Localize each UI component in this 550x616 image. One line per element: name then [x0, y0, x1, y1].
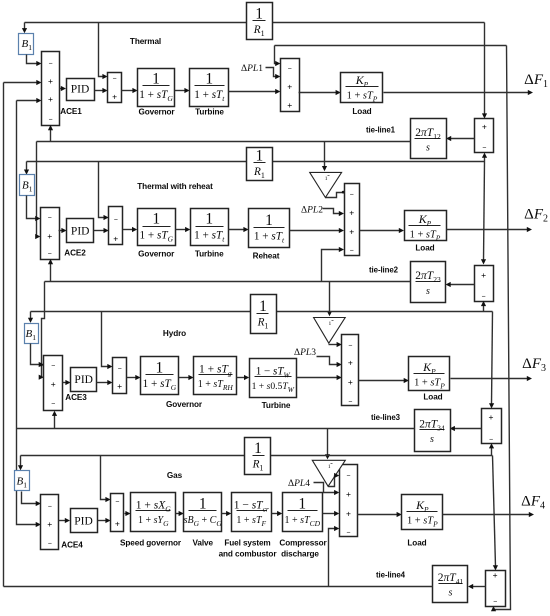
wire B1-2 output to ACE2: [27, 196, 37, 219]
block 1/R1 area-4: [245, 438, 271, 475]
svg-text:tie-line3: tie-line3: [371, 413, 401, 422]
node area-2 frequency feedback wire (y=161): [27, 161, 247, 163]
svg-text:+: +: [48, 76, 53, 86]
svg-text:s: s: [430, 434, 434, 445]
svg-text:Turbine: Turbine: [195, 250, 224, 259]
node area-4 frequency feedback wire (y=456): [21, 455, 245, 457]
wire dF4 chain down to tie-line4 summer: [493, 456, 496, 567]
svg-text:tie-line4: tie-line4: [376, 571, 406, 580]
block Valve 1/(sBG+CG): [184, 493, 223, 532]
svg-text:1 + sTt: 1 + sTt: [254, 230, 285, 244]
summer tie-line2 (dF2 - dF3): [475, 266, 494, 302]
wire droop 1/R1 feedback stub area-2: [99, 162, 106, 218]
svg-text:Reheat: Reheat: [253, 251, 280, 260]
svg-text:Governor: Governor: [166, 400, 203, 409]
block tie-line1 2piT12/s: [411, 119, 447, 159]
block transient droop (1+sTg)/(1+sTRH): [194, 357, 237, 395]
svg-text:Load: Load: [407, 539, 426, 548]
node area-3 frequency feedback wire (y=312): [31, 311, 251, 313]
svg-text:−: −: [346, 473, 350, 480]
summer tie-line3 (dF3 - dF4): [482, 409, 502, 444]
wire tie2 summer to tie2 block: [449, 284, 475, 286]
wire tie-line3 output bus: [17, 428, 415, 430]
wire dF1 long feedback down right side to tie-line4: [494, 46, 511, 610]
svg-text:1: 1: [152, 211, 160, 228]
wire tie-line4 output bus: [4, 586, 329, 588]
svg-text:1: 1: [205, 70, 213, 87]
svg-text:Turbine: Turbine: [262, 401, 291, 410]
svg-text:1 + sTt: 1 + sTt: [194, 229, 225, 243]
wire summer to governor-2: [123, 229, 134, 231]
wire PID2 to summer: [94, 230, 106, 232]
wire dPL1 hook into summer: [266, 68, 277, 77]
summer generation area-4 (dPL4): [340, 465, 358, 537]
svg-text:1: 1: [325, 176, 328, 182]
wire summer to load-2: [360, 230, 401, 232]
summer ACE4: [41, 495, 59, 550]
wire dF2 chain down to tie-line2 summer: [484, 162, 485, 262]
svg-text:−: −: [48, 215, 52, 222]
svg-text:and combustor: and combustor: [219, 550, 278, 559]
wire tie4 output stub up into generation summer 4 row4: [329, 529, 336, 587]
svg-text:PID: PID: [71, 226, 90, 238]
summer pre-governor area-2: [109, 207, 123, 245]
svg-text:1: 1: [255, 6, 263, 23]
gain inverter triangle area-2: [310, 172, 342, 197]
wire PID3 to summer: [97, 382, 109, 384]
wire to fuel system: [222, 513, 228, 515]
svg-text:discharge: discharge: [281, 550, 319, 559]
block Governor area-2 1/(1+sTG): [138, 209, 176, 246]
wire ACE2 to PID: [59, 230, 64, 232]
wire PID4 to summer: [98, 520, 108, 522]
svg-text:Valve: Valve: [192, 539, 213, 548]
svg-text:−: −: [48, 504, 52, 511]
wire tie-line2 output bus: [45, 281, 411, 283]
svg-text:+: +: [482, 121, 487, 131]
block Speed governor (1+sXG)/(1+sYG): [131, 493, 176, 532]
wire triangle-4 output into generation summer 4: [329, 476, 335, 487]
svg-text:ACE4: ACE4: [61, 541, 83, 550]
node area-1 frequency feedback wire (y=22): [25, 22, 247, 24]
svg-text:Compressor: Compressor: [279, 539, 327, 548]
svg-text:1: 1: [259, 298, 267, 315]
svg-text:+: +: [112, 92, 117, 102]
svg-text:PID: PID: [74, 374, 93, 386]
svg-text:−: −: [115, 499, 119, 506]
svg-text:−: −: [489, 437, 493, 444]
wire summer to load-1: [299, 92, 338, 94]
wire B1-3 output to ACE3: [31, 344, 41, 365]
wire dF1 tap down to tie-line1 summer: [484, 23, 486, 116]
controller PID area-2: [67, 219, 94, 243]
svg-text:Speed governor: Speed governor: [120, 539, 182, 548]
block Governor area-1 1/(1+sTG): [138, 69, 175, 107]
wire tie1 junction down to inverter triangle area-2: [324, 142, 326, 168]
svg-text:+: +: [346, 489, 351, 499]
svg-text:+: +: [47, 231, 52, 241]
svg-text:+: +: [348, 377, 353, 387]
svg-text:Thermal with reheat: Thermal with reheat: [137, 182, 213, 191]
wire tie1 output down to area-2 ACE2: [36, 142, 38, 237]
wire dPL4 hook into summer: [314, 483, 336, 493]
svg-text:Thermal: Thermal: [130, 37, 161, 46]
wire tie-line4 output into generation summer 1 (top elbow): [275, 45, 507, 47]
controller PID area-4: [71, 509, 98, 533]
summer generation area-3 (dPL3): [342, 335, 359, 407]
wire dF3 feedback up into tie2 summer (minus): [483, 305, 485, 312]
svg-text:1: 1: [256, 148, 264, 165]
block Turbine area-1 1/(1+sTt): [190, 69, 229, 107]
svg-text:s: s: [426, 286, 430, 297]
svg-text:−: −: [482, 145, 486, 152]
svg-text:ΔPL3: ΔPL3: [294, 348, 316, 358]
summer pre-governor area-1: [108, 73, 122, 103]
block Fuel system (1-sTcr)/(1+sTF): [232, 493, 272, 532]
wire tie2 output up into ACE2 bottom: [50, 263, 52, 282]
svg-text:1: 1: [298, 495, 306, 512]
svg-text:−: −: [51, 363, 55, 370]
svg-text:−: −: [113, 76, 117, 83]
wire tie3 output up into ACE3 bottom: [54, 415, 56, 429]
wire tie3 output down then into ACE4 row2: [17, 429, 38, 525]
wire output dF2: [447, 229, 529, 231]
wire tie2 junction down to inverter triangle area-3: [329, 282, 331, 313]
svg-text:ACE3: ACE3: [65, 393, 87, 402]
summer generation area-1 (dPL1): [281, 59, 300, 112]
block B1 area-4: [15, 471, 30, 491]
svg-text:1: 1: [199, 495, 207, 512]
controller PID area-3: [71, 368, 97, 392]
summer generation area-2 (dPL2): [345, 184, 360, 256]
block B1 area-2: [20, 175, 35, 196]
svg-text:PID: PID: [74, 515, 93, 527]
svg-text:ΔPL4: ΔPL4: [288, 479, 310, 489]
wire droop 1/R1 feedback stub area-3: [102, 312, 109, 367]
wire output dF1: [384, 92, 530, 94]
svg-text:−: −: [114, 217, 118, 224]
svg-text:tie-line2: tie-line2: [369, 266, 399, 275]
wire tie-line4 feedback into ACE1 (+) row2: [4, 82, 39, 84]
svg-text:+: +: [48, 94, 53, 104]
block B1 area-1: [19, 34, 34, 55]
block 1/R1 area-1: [247, 3, 273, 40]
block tie-line2 2piT23/s: [411, 262, 446, 303]
wire governor-2 to turbine-2: [176, 229, 187, 231]
svg-text:1: 1: [328, 464, 331, 470]
svg-text:+: +: [115, 518, 120, 528]
wire to hydro turbine block: [237, 377, 246, 379]
wire output dF3: [451, 378, 529, 380]
wire PID1 to summer: [95, 90, 105, 92]
svg-text:tie-line1: tie-line1: [366, 126, 396, 135]
svg-text:−: −: [348, 399, 352, 406]
wire tie2 output stub up into generation summer 2 row4: [322, 250, 341, 282]
wire turbine-2 to reheat: [229, 229, 246, 231]
block hydro governor 1/(1+sTG): [141, 357, 179, 395]
controller PID area-1: [67, 79, 95, 101]
wire summer to governor-1: [122, 90, 135, 92]
svg-text:+: +: [493, 570, 498, 580]
wire turbine-3 to generation summer 3: [297, 377, 339, 379]
wire tie2 output down to ACE3: [42, 282, 45, 378]
svg-text:Turbine: Turbine: [195, 107, 224, 116]
block Load area-4: [402, 495, 443, 530]
svg-text:PID: PID: [71, 84, 90, 96]
svg-text:+: +: [51, 379, 56, 389]
svg-text:−: −: [348, 343, 352, 350]
block Turbine area-2 1/(1+sTt): [191, 209, 229, 246]
wire to valve: [176, 513, 181, 515]
wire droop 1/R1 feedback stub area-1: [99, 23, 105, 77]
svg-text:1: 1: [156, 359, 164, 376]
block tie-line3 2piT34/s: [415, 410, 451, 452]
wire B1-1 feed elbow: [24, 23, 26, 30]
svg-text:+: +: [346, 509, 351, 519]
wire ACE4 to PID: [59, 520, 67, 522]
svg-text:ACE2: ACE2: [64, 249, 86, 258]
wire droop 1/R1 feedback stub area-4: [101, 456, 108, 500]
wire B1-4 output to ACE4: [22, 492, 38, 504]
block 1/R1 area-2: [247, 148, 273, 181]
gain inverter triangle area-4: [312, 460, 345, 486]
wire dF4 feedback up into tie3 summer (minus): [491, 447, 493, 456]
svg-text:Load: Load: [352, 107, 371, 116]
wire summer to governor-3: [127, 377, 137, 379]
wire tie3 long feedback up-left to ACE1 row3: [16, 101, 18, 429]
svg-text:1: 1: [265, 212, 273, 229]
block hydro Turbine (1-sTW)/(1+s0.5TW): [250, 359, 297, 398]
wire summer to load-4: [358, 514, 399, 516]
wire tie4 long feedback up-left to ACE1 row2: [3, 83, 5, 587]
wire B1-4 feed elbow: [20, 456, 22, 467]
svg-text:ACE1: ACE1: [60, 107, 82, 116]
svg-text:Hydro: Hydro: [163, 329, 186, 338]
wire dF3 chain down to tie-line3 summer: [492, 312, 493, 405]
svg-text:Governor: Governor: [138, 107, 175, 116]
block Load area-1 KP/(1+sTP): [341, 73, 383, 104]
wire tie1 output up into ACE1 bottom: [50, 129, 52, 142]
wire governor-1 to turbine-1: [175, 90, 187, 92]
svg-text:−: −: [48, 251, 52, 258]
svg-text:−: −: [51, 401, 55, 408]
wire tie1 summer to tie1 block: [450, 138, 475, 140]
svg-text:−: −: [346, 530, 350, 537]
svg-text:s: s: [449, 588, 453, 599]
wire ACE1 to PID: [60, 88, 63, 90]
svg-text:Governor: Governor: [138, 250, 175, 259]
wire B1-1 output to ACE1: [27, 55, 39, 64]
summer tie-line4 (dF4 - dF1): [486, 570, 506, 606]
svg-text:−: −: [482, 294, 486, 301]
block Load area-3: [409, 357, 450, 391]
wire compressor to generation summer 4: [323, 513, 336, 515]
svg-text:+: +: [287, 100, 292, 110]
svg-text:+: +: [47, 519, 52, 529]
svg-text:−: −: [350, 248, 354, 255]
svg-text:+: +: [349, 226, 354, 236]
wire B1-3 feed elbow: [30, 312, 32, 320]
svg-text:−: −: [118, 366, 122, 373]
svg-text:+: +: [287, 82, 292, 92]
wire tie3 summer to tie3 block: [454, 428, 482, 430]
svg-text:−: −: [48, 116, 52, 123]
wire to compressor discharge: [272, 513, 279, 515]
svg-text:1: 1: [205, 211, 213, 228]
svg-text:+: +: [481, 270, 486, 280]
svg-text:1: 1: [254, 440, 262, 457]
summer pre-governor area-3: [113, 358, 127, 394]
svg-text:+: +: [489, 412, 494, 422]
svg-text:1 + sTt: 1 + sTt: [194, 89, 225, 103]
wire tie4 summer to tie4 block: [472, 586, 486, 588]
svg-text:ΔPL2: ΔPL2: [301, 205, 323, 215]
svg-text:Load: Load: [415, 244, 434, 253]
svg-text:1: 1: [152, 70, 160, 87]
wire ACE3 to PID: [63, 382, 68, 384]
wire output dF4: [443, 514, 531, 516]
gain inverter triangle area-3: [314, 318, 346, 344]
wire tie-line3 feedback into ACE1 (+) row3: [17, 100, 39, 102]
svg-text:Fuel system: Fuel system: [224, 539, 270, 548]
wire turbine-1 to generation summer: [229, 91, 277, 93]
wire B1-2 feed elbow: [26, 162, 28, 172]
svg-text:1: 1: [329, 321, 332, 327]
svg-text:1 + sTg: 1 + sTg: [199, 363, 232, 377]
summer pre-governor area-4: [111, 494, 124, 532]
wire summer to speed governor: [125, 513, 128, 515]
block tie-line4 2piT41/s: [433, 566, 468, 603]
svg-text:−: −: [48, 60, 52, 67]
block B1 area-3: [25, 324, 39, 344]
svg-text:+: +: [117, 381, 122, 391]
svg-text:+: +: [349, 207, 354, 217]
wire dF2 feedback up into tie1 summer (minus): [484, 157, 486, 162]
svg-text:s: s: [426, 143, 430, 154]
summer ACE2: [41, 208, 60, 260]
wire tie-line1 output bus: [37, 141, 411, 143]
svg-text:+: +: [348, 358, 353, 368]
block Compressor discharge 1/(1+sTCD): [283, 493, 323, 532]
block Reheat area-2: [249, 209, 290, 248]
summer tie-line1 (dF1 - dF2): [475, 119, 494, 153]
wire reheat to generation summer 2: [290, 230, 341, 232]
summer ACE3: [44, 356, 63, 411]
svg-text:+: +: [113, 234, 118, 244]
block 1/R1 area-3: [251, 295, 277, 334]
wire summer to load-3: [359, 380, 406, 382]
svg-text:−: −: [48, 540, 52, 547]
wire to transient droop block: [179, 377, 191, 379]
wire triangle-3 output into generation summer 3: [329, 344, 339, 346]
svg-text:ΔPL1: ΔPL1: [241, 64, 263, 74]
wire dPL2 hook into summer: [323, 209, 341, 214]
wire dPL3 hook into summer: [317, 357, 339, 365]
svg-text:−: −: [493, 599, 497, 606]
svg-text:−: −: [288, 66, 292, 73]
wire triangle-2 output into generation summer 2: [326, 193, 345, 198]
summer ACE1: [42, 52, 60, 126]
svg-text:Load: Load: [423, 393, 442, 402]
svg-text:Gas: Gas: [167, 471, 183, 480]
svg-text:−: −: [350, 191, 354, 198]
block Load area-2: [405, 211, 447, 243]
wire tie3 junction down to inverter triangle area-4: [327, 429, 329, 456]
